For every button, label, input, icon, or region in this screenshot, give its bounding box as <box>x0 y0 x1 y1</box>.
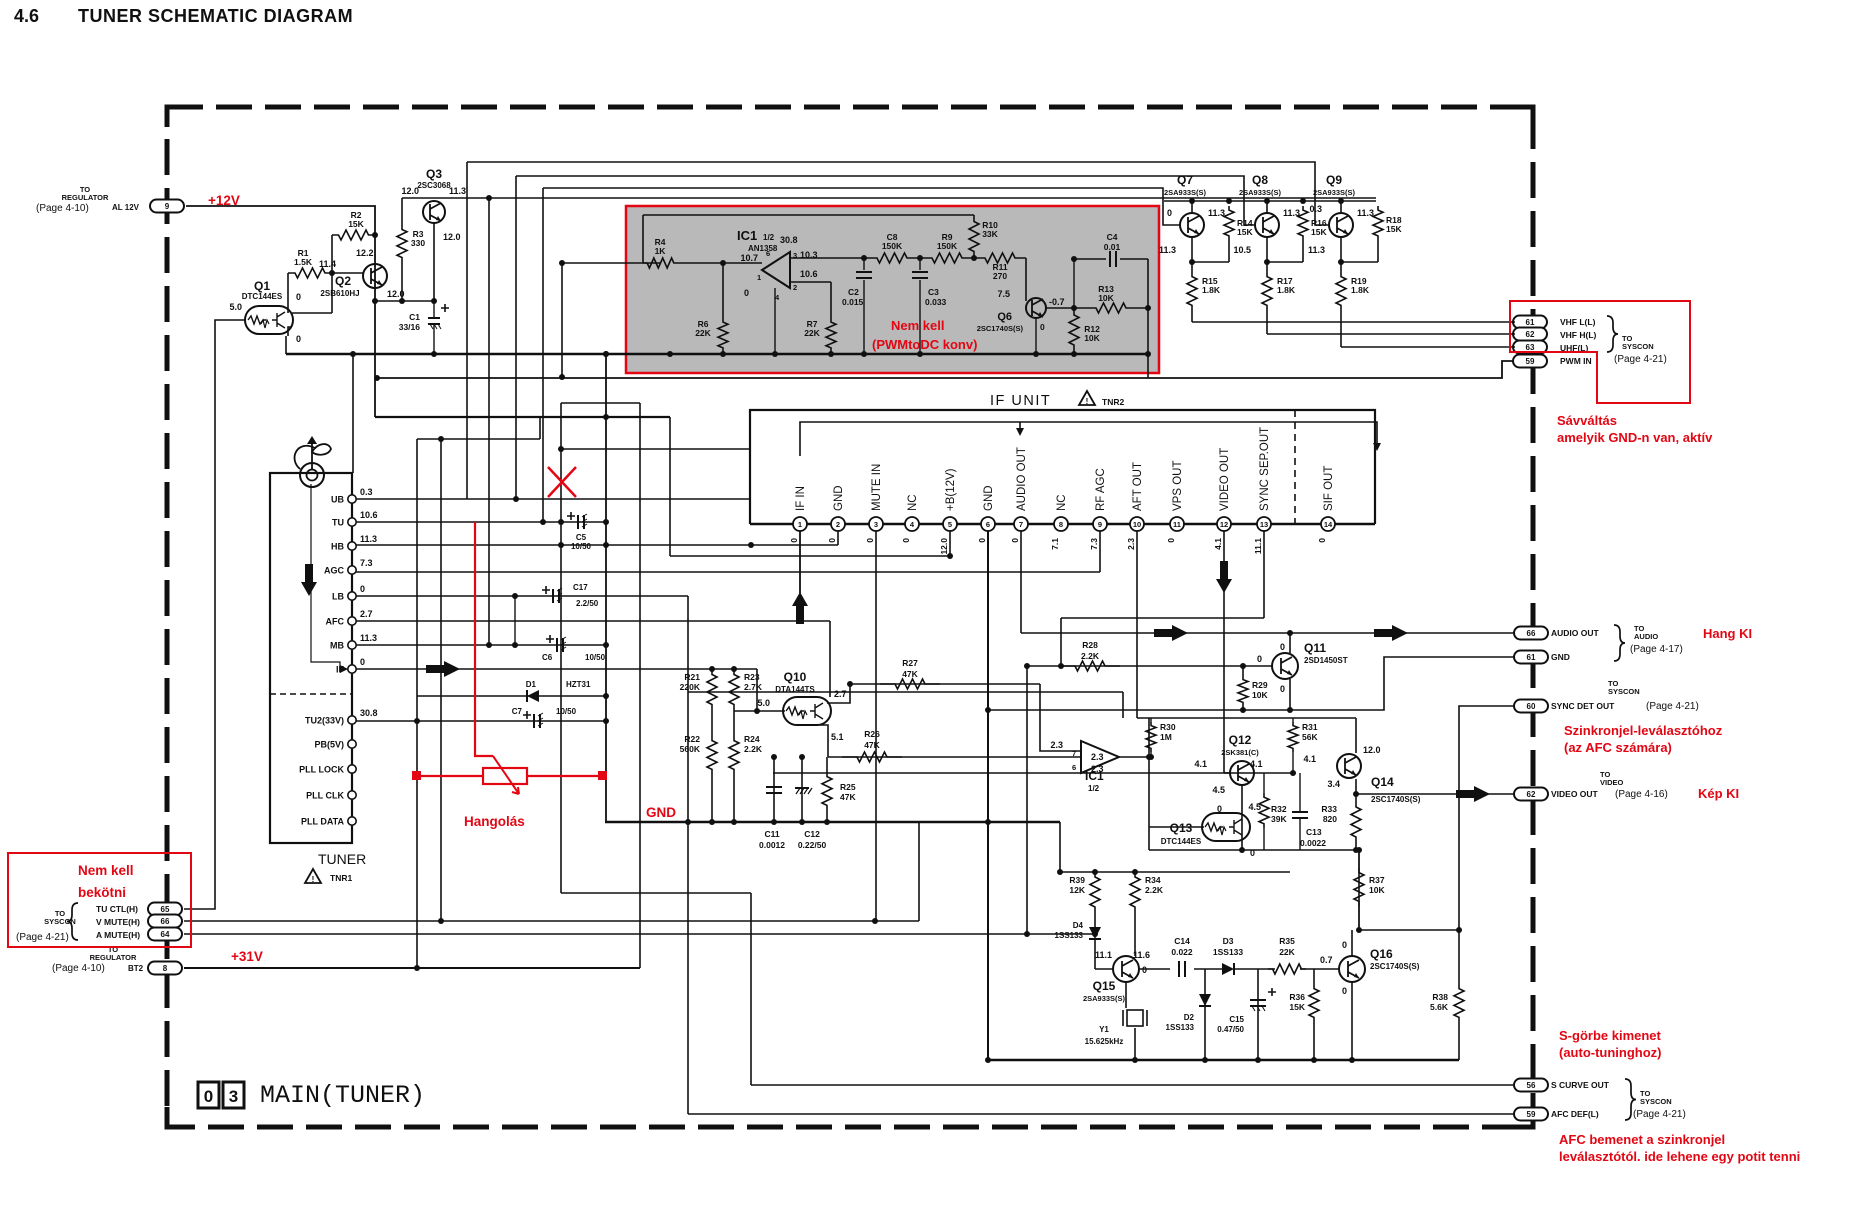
svg-text:R24: R24 <box>744 734 760 744</box>
svg-text:62: 62 <box>1526 330 1535 339</box>
svg-text:AN1358: AN1358 <box>748 244 778 253</box>
junction <box>603 351 609 357</box>
svg-text:C6: C6 <box>542 653 553 662</box>
wire <box>1351 930 1353 956</box>
junction <box>771 819 777 825</box>
svg-text:1: 1 <box>798 520 802 529</box>
IF UNIT SIF divider <box>1294 410 1296 524</box>
svg-text:Q6: Q6 <box>997 311 1012 323</box>
svg-text:7.1: 7.1 <box>1050 538 1060 550</box>
svg-text:Q9: Q9 <box>1326 173 1342 187</box>
wire <box>1134 912 1136 956</box>
svg-text:0.033: 0.033 <box>925 297 947 307</box>
board number box 3 <box>223 1082 244 1108</box>
svg-text:VHF L(L): VHF L(L) <box>1560 317 1596 327</box>
resistor R21 <box>707 669 717 710</box>
TUNER pin IF <box>348 665 356 673</box>
IF IN arrow <box>792 592 808 624</box>
resistor R2 <box>332 230 375 240</box>
resistor R26 <box>842 752 902 762</box>
svg-text:0: 0 <box>296 292 301 302</box>
wire Q8 output <box>1266 237 1268 272</box>
svg-text:2SA933S(S): 2SA933S(S) <box>1164 188 1207 197</box>
junction <box>1092 869 1098 875</box>
svg-text:(Page 4-21): (Page 4-21) <box>1646 701 1699 712</box>
svg-text:3: 3 <box>229 1087 238 1106</box>
svg-text:RF AGC: RF AGC <box>1095 468 1107 511</box>
IF UNIT pin 3 <box>869 517 883 531</box>
transistor Q6 <box>1026 298 1046 318</box>
wire band select to Q8 <box>516 176 1255 225</box>
svg-text:56: 56 <box>1527 1081 1536 1090</box>
svg-text:C5: C5 <box>576 533 587 542</box>
wire <box>1358 906 1360 930</box>
wire C11 drop <box>773 757 775 822</box>
junction <box>799 754 805 760</box>
svg-text:REGULATOR: REGULATOR <box>90 953 137 962</box>
crystal Y1 <box>1123 1010 1147 1026</box>
junction <box>685 819 691 825</box>
TUNER pin UB <box>348 495 356 503</box>
wire AFC to Q10 <box>829 621 831 697</box>
wire <box>1313 969 1315 984</box>
wire C12 drop <box>801 757 803 822</box>
svg-text:47K: 47K <box>902 669 918 679</box>
resistor R28 <box>1060 661 1120 671</box>
junction <box>1300 198 1306 204</box>
svg-text:2SC1740S(S): 2SC1740S(S) <box>1370 962 1420 971</box>
svg-text:59: 59 <box>1526 357 1535 366</box>
wire MB <box>352 644 606 646</box>
audio arrow <box>1154 625 1188 641</box>
svg-text:amelyik GND-n van, aktív: amelyik GND-n van, aktív <box>1557 430 1713 445</box>
svg-text:5: 5 <box>948 520 952 529</box>
svg-text:R23: R23 <box>744 672 760 682</box>
red box band select <box>1510 301 1690 403</box>
svg-text:C11: C11 <box>764 829 779 839</box>
wire <box>1150 718 1152 722</box>
junction <box>1239 847 1245 853</box>
wire R27 line <box>850 683 1040 685</box>
junction <box>797 618 803 624</box>
svg-text:TUNER: TUNER <box>318 851 366 867</box>
svg-text:TU CTL(H): TU CTL(H) <box>96 904 138 914</box>
svg-text:11.1: 11.1 <box>1095 950 1112 960</box>
junction <box>1057 869 1063 875</box>
svg-text:2SA933S(S): 2SA933S(S) <box>1313 188 1356 197</box>
connector pin 59 AFC DEF <box>1514 1108 1548 1121</box>
resistor R32 <box>1259 793 1269 828</box>
svg-text:Q7: Q7 <box>1177 173 1193 187</box>
svg-text:(Page 4-16): (Page 4-16) <box>1615 789 1668 800</box>
svg-text:Q12: Q12 <box>1229 733 1252 747</box>
TUNER pin PLL DATA <box>348 817 356 825</box>
wire <box>1060 618 1062 666</box>
svg-text:22K: 22K <box>1279 947 1295 957</box>
svg-text:7.3: 7.3 <box>1089 538 1099 550</box>
transistor Q9 <box>1329 213 1353 237</box>
connector pin 64 A MUTE <box>148 928 182 941</box>
wire R35 to Q16 <box>1300 968 1339 970</box>
svg-text:10K: 10K <box>1252 690 1268 700</box>
svg-text:NC: NC <box>907 494 919 511</box>
resistor R22 <box>707 736 717 774</box>
wire <box>1302 240 1304 262</box>
svg-text:Nem kell: Nem kell <box>78 863 134 878</box>
svg-text:DTC144ES: DTC144ES <box>1161 837 1202 846</box>
svg-text:2: 2 <box>836 520 840 529</box>
junction <box>1290 770 1296 776</box>
wire <box>1224 772 1230 774</box>
svg-text:AFT OUT: AFT OUT <box>1132 462 1144 511</box>
red box nem kell bekotni <box>8 853 191 947</box>
svg-text:SYSCON: SYSCON <box>1622 342 1654 351</box>
junction <box>1202 1057 1208 1063</box>
svg-text:AUDIO OUT: AUDIO OUT <box>1016 447 1028 511</box>
connector pin 65 TU CTL <box>148 903 182 916</box>
svg-text:VIDEO OUT: VIDEO OUT <box>1551 789 1599 799</box>
svg-text:Kép KI: Kép KI <box>1698 786 1739 801</box>
junction <box>754 708 760 714</box>
svg-text:R38: R38 <box>1432 992 1448 1002</box>
wire <box>542 188 544 522</box>
svg-text:R26: R26 <box>864 729 880 739</box>
svg-text:TU2(33V): TU2(33V) <box>305 716 344 726</box>
svg-text:0: 0 <box>1280 684 1285 694</box>
junction <box>847 681 853 687</box>
wire <box>515 176 517 499</box>
svg-text:(Page 4-10): (Page 4-10) <box>36 203 89 214</box>
svg-text:6: 6 <box>986 520 990 529</box>
wire Q14 collector <box>1355 718 1357 753</box>
wire IC1a pin4 gnd <box>774 288 776 354</box>
svg-text:+B(12V): +B(12V) <box>945 468 957 511</box>
svg-text:12.0: 12.0 <box>939 538 949 555</box>
junction <box>1338 259 1344 265</box>
svg-text:0: 0 <box>1142 965 1147 975</box>
wire IC1b output <box>1119 756 1149 758</box>
wire <box>1266 310 1268 334</box>
capacitor C15 <box>1250 988 1276 1011</box>
svg-text:66: 66 <box>161 917 170 926</box>
junction <box>512 593 518 599</box>
wire V MUTE line <box>184 920 919 922</box>
svg-text:DTA144TS: DTA144TS <box>775 685 815 694</box>
resistor R24 <box>729 736 739 774</box>
svg-text:2.3: 2.3 <box>1050 740 1063 750</box>
junction <box>1071 351 1077 357</box>
wire D1 line <box>417 695 606 697</box>
svg-text:(auto-tuninghoz): (auto-tuninghoz) <box>1559 1045 1662 1060</box>
transistor Q10 <box>783 697 831 725</box>
resistor R3 <box>397 225 407 262</box>
IF UNIT pin 1 <box>793 517 807 531</box>
capacitor C14 <box>1179 961 1185 977</box>
capacitor C11 <box>766 787 782 793</box>
svg-text:R31: R31 <box>1302 722 1318 732</box>
svg-text:4.1: 4.1 <box>1213 538 1223 550</box>
junction <box>1092 931 1098 937</box>
svg-text:150K: 150K <box>882 241 903 251</box>
svg-text:30.8: 30.8 <box>360 708 378 718</box>
wire <box>1263 828 1265 850</box>
wire UHF line <box>1341 346 1515 348</box>
junction <box>1240 707 1246 713</box>
junction <box>828 351 834 357</box>
junction <box>558 542 564 548</box>
svg-text:1M: 1M <box>1160 732 1172 742</box>
svg-text:0: 0 <box>1167 208 1172 218</box>
junction <box>1226 198 1232 204</box>
junction <box>667 351 673 357</box>
wire bottom GND rail <box>988 1059 1459 1062</box>
capacitor C2 <box>856 272 872 278</box>
junction <box>1353 847 1359 853</box>
antenna symbol <box>295 436 331 487</box>
wire Q12 bottom rail <box>1149 849 1359 851</box>
wire <box>1263 773 1265 793</box>
warning triangle TNR1 <box>305 869 321 884</box>
junction <box>731 819 737 825</box>
gray deleted-section background <box>627 207 1158 372</box>
wire Q9 output <box>1340 237 1342 272</box>
svg-text:Q13: Q13 <box>1170 821 1193 835</box>
svg-text:Q14: Q14 <box>1371 775 1394 789</box>
board outline corner <box>1513 107 1533 127</box>
svg-text:C17: C17 <box>573 583 588 592</box>
connector pin 8 BT2 <box>148 962 182 975</box>
svg-text:VPS OUT: VPS OUT <box>1172 461 1184 511</box>
svg-text:Hang KI: Hang KI <box>1703 626 1752 641</box>
svg-text:2SD1450ST: 2SD1450ST <box>1304 656 1348 665</box>
svg-text:PLL CLK: PLL CLK <box>306 791 344 801</box>
wire band select to Q7 <box>543 188 1180 225</box>
arrow into IF unit <box>1016 428 1024 436</box>
wire <box>1299 773 1301 812</box>
svg-text:2.7: 2.7 <box>834 689 847 699</box>
svg-text:1.8K: 1.8K <box>1277 285 1296 295</box>
wire Q13 base <box>1149 826 1204 828</box>
capacitor C1 <box>428 304 449 329</box>
AGC arrow inside tuner <box>301 564 317 596</box>
wire Q12 source drop <box>1241 785 1243 850</box>
svg-text:10K: 10K <box>1369 885 1385 895</box>
svg-text:12.0: 12.0 <box>1363 745 1381 755</box>
wire Q15 base <box>1095 968 1113 970</box>
svg-text:65: 65 <box>161 905 170 914</box>
wire <box>830 282 832 318</box>
svg-text:1.8K: 1.8K <box>1351 285 1370 295</box>
svg-text:3: 3 <box>874 520 878 529</box>
junction <box>1024 663 1030 669</box>
svg-text:MUTE IN: MUTE IN <box>871 464 883 511</box>
svg-text:bekötni: bekötni <box>78 885 126 900</box>
svg-text:PLL DATA: PLL DATA <box>301 817 344 827</box>
wire Q6 base <box>1025 258 1027 301</box>
svg-text:10/50: 10/50 <box>571 542 592 551</box>
svg-text:2SA933S(S): 2SA933S(S) <box>1239 188 1282 197</box>
svg-text:SYSCON: SYSCON <box>1640 1097 1672 1106</box>
wire <box>433 324 435 354</box>
wire TU <box>352 521 606 523</box>
svg-text:(Page 4-21): (Page 4-21) <box>1633 1109 1686 1120</box>
arrow into IF unit <box>1373 443 1381 451</box>
wire GND pin2 drop <box>837 524 839 545</box>
wire <box>1059 822 1061 872</box>
wire <box>1094 939 1096 969</box>
transistor Q2 <box>363 264 387 288</box>
resistor R27 <box>880 679 940 689</box>
wire TU2 33V line <box>352 720 606 722</box>
brace syscon right top <box>1607 316 1618 352</box>
audio arrow <box>1374 625 1408 641</box>
svg-text:62: 62 <box>1527 790 1536 799</box>
wire <box>733 774 735 822</box>
wire Q11 emitter <box>1289 679 1291 710</box>
wire +B pin5 drop <box>949 524 951 556</box>
resistor R10 <box>969 215 979 258</box>
wire sync sep line <box>1061 617 1264 619</box>
wire main 12V bus <box>286 353 1148 356</box>
svg-text:0: 0 <box>865 538 875 543</box>
svg-text:2SK381(C): 2SK381(C) <box>1221 748 1259 757</box>
svg-text:1SS133: 1SS133 <box>1166 1023 1195 1032</box>
junction <box>603 414 609 420</box>
resistor R17 <box>1262 272 1272 310</box>
svg-text:C15: C15 <box>1229 1015 1244 1024</box>
junction <box>372 232 378 238</box>
svg-text:TUNER SCHEMATIC DIAGRAM: TUNER SCHEMATIC DIAGRAM <box>78 6 353 26</box>
wire C14-D3 <box>1194 968 1222 970</box>
svg-text:LB: LB <box>332 592 344 602</box>
svg-text:NC: NC <box>1056 494 1068 511</box>
wire <box>826 757 828 772</box>
transistor Q13 <box>1202 813 1250 841</box>
wire AFC <box>352 620 830 622</box>
wire UB <box>352 498 750 500</box>
svg-text:0: 0 <box>827 538 837 543</box>
wire <box>561 892 751 894</box>
svg-text:MAIN(TUNER): MAIN(TUNER) <box>260 1081 425 1110</box>
wire <box>1242 706 1244 710</box>
svg-text:11.3: 11.3 <box>360 534 377 544</box>
wire <box>1377 240 1379 262</box>
svg-text:10.6: 10.6 <box>360 510 378 520</box>
junction <box>513 496 519 502</box>
wire R26 line <box>828 756 1081 758</box>
junction <box>438 918 444 924</box>
svg-text:GND: GND <box>646 805 676 820</box>
svg-text:IC1: IC1 <box>737 228 757 243</box>
wire <box>1358 850 1360 868</box>
svg-text:11.3: 11.3 <box>1308 245 1325 255</box>
svg-text:8: 8 <box>163 964 168 973</box>
svg-text:12.0: 12.0 <box>443 232 461 242</box>
wire IF out cont <box>512 668 757 670</box>
svg-text:13: 13 <box>1260 520 1268 529</box>
svg-text:0: 0 <box>1217 804 1222 814</box>
svg-text:SYNC DET OUT: SYNC DET OUT <box>1551 701 1615 711</box>
svg-text:VHF H(L): VHF H(L) <box>1560 330 1597 340</box>
resistor R7 <box>826 318 836 352</box>
svg-text:PB(5V): PB(5V) <box>314 740 344 750</box>
svg-text:VIDEO: VIDEO <box>1600 778 1624 787</box>
wire Q7 output <box>1191 237 1193 272</box>
svg-text:PWM IN: PWM IN <box>1560 356 1592 366</box>
junction <box>1189 198 1195 204</box>
svg-text:7: 7 <box>1072 749 1076 758</box>
wire Q16 collector line <box>1359 929 1459 931</box>
wire <box>1073 259 1075 308</box>
IF UNIT pin 4 <box>905 517 919 531</box>
junction <box>1189 259 1195 265</box>
junction <box>985 707 991 713</box>
svg-text:2.7K: 2.7K <box>744 682 763 692</box>
svg-text:HZT31: HZT31 <box>566 680 591 689</box>
svg-text:11.3: 11.3 <box>1159 245 1176 255</box>
svg-text:11.3: 11.3 <box>449 186 466 196</box>
wire <box>292 312 332 314</box>
red outline around PWMtoDC section <box>626 206 1159 373</box>
wire VHF L line <box>1192 321 1515 323</box>
junction <box>1356 847 1362 853</box>
wire <box>1340 201 1342 213</box>
connector pin 66 AUDIO OUT <box>1514 627 1548 640</box>
resistor R30 <box>1146 722 1156 752</box>
junction <box>1058 663 1064 669</box>
capacitor C13 <box>1292 812 1308 818</box>
svg-text:56K: 56K <box>1302 732 1318 742</box>
svg-text:C14: C14 <box>1174 936 1190 946</box>
resistor R34 <box>1130 872 1140 912</box>
TUNER pin PLL CLK <box>348 791 356 799</box>
junction <box>559 374 565 380</box>
wire <box>1313 1022 1315 1058</box>
svg-text:33/16: 33/16 <box>399 322 421 332</box>
junction <box>399 298 405 304</box>
junction <box>861 351 867 357</box>
svg-text:Sávváltás: Sávváltás <box>1557 413 1617 428</box>
wire <box>1254 772 1293 774</box>
wire MUTE IN drop <box>875 524 877 921</box>
resistor R15 <box>1187 272 1197 310</box>
junction <box>603 542 609 548</box>
svg-text:Q1: Q1 <box>254 279 270 293</box>
svg-text:0: 0 <box>1250 848 1255 858</box>
junction <box>947 553 953 559</box>
op-amp IC1 (2/2) <box>1081 741 1119 773</box>
diode D2 <box>1199 994 1211 1006</box>
svg-text:15K: 15K <box>1311 227 1327 237</box>
transistor Q3 <box>423 201 445 223</box>
svg-text:5.0: 5.0 <box>757 698 770 708</box>
svg-text:3.4: 3.4 <box>1327 779 1340 789</box>
svg-text:5.6K: 5.6K <box>1430 1002 1449 1012</box>
wire <box>1191 310 1193 322</box>
svg-text:5.1: 5.1 <box>831 732 844 742</box>
resistor R11 <box>974 253 1026 263</box>
svg-text:11.1: 11.1 <box>1253 538 1263 554</box>
svg-text:0: 0 <box>789 538 799 543</box>
svg-text:C2: C2 <box>848 287 859 297</box>
wire <box>417 438 540 440</box>
svg-text:Q16: Q16 <box>1370 947 1393 961</box>
junction <box>1264 198 1270 204</box>
svg-text:0.0022: 0.0022 <box>1300 838 1326 848</box>
wire <box>1267 261 1303 263</box>
red tuning wire <box>475 522 493 756</box>
svg-text:10: 10 <box>1133 520 1141 529</box>
